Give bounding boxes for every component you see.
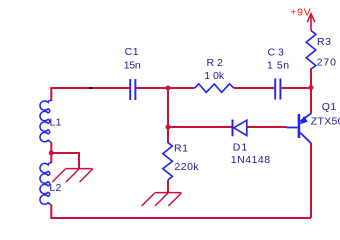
svg-text:C 3: C 3 <box>268 47 285 59</box>
svg-text:+9V: +9V <box>290 6 311 18</box>
svg-text:1 5n: 1 5n <box>267 59 290 71</box>
svg-text:L1: L1 <box>50 116 62 128</box>
svg-text:15n: 15n <box>124 59 141 71</box>
svg-text:220k: 220k <box>174 161 199 173</box>
svg-text:270: 270 <box>317 57 337 69</box>
svg-text:R 2: R 2 <box>207 57 224 69</box>
svg-text:ZTX500: ZTX500 <box>311 116 340 128</box>
svg-text:Q1: Q1 <box>322 101 337 113</box>
svg-text:1N4148: 1N4148 <box>231 154 271 166</box>
svg-text:R3: R3 <box>317 36 331 48</box>
svg-text:1 0k: 1 0k <box>204 70 225 82</box>
svg-text:R1: R1 <box>174 142 188 154</box>
svg-text:C1: C1 <box>125 46 140 58</box>
svg-text:L2: L2 <box>49 182 61 194</box>
svg-text:D1: D1 <box>233 142 248 154</box>
